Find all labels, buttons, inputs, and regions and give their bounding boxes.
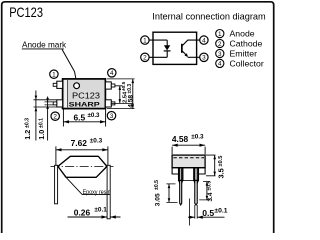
dashed mold line	[173, 157, 204, 159]
left lead shoulder	[179, 168, 183, 181]
legend pin 3 Emitter	[216, 49, 257, 59]
pin 1 circle (schematic)	[141, 36, 149, 45]
dimension 2.54±0.5 (pin pitch, right)	[112, 81, 134, 103]
rear shoulder line between leads	[183, 179, 194, 181]
dimension 0.5±0.1 (lead width)	[188, 205, 228, 219]
svg-text:2: 2	[53, 114, 57, 121]
pin 2 circle (schematic)	[141, 53, 149, 62]
svg-text:PC123: PC123	[72, 91, 100, 100]
svg-text:0.5: 0.5	[202, 208, 214, 218]
svg-text:1: 1	[52, 72, 56, 79]
svg-text:±0.3: ±0.3	[191, 133, 204, 140]
svg-text:4.58: 4.58	[172, 134, 189, 144]
svg-text:1: 1	[143, 37, 147, 44]
pin 3 number circle	[107, 112, 115, 121]
svg-text:1.2: 1.2	[23, 130, 32, 140]
dimension 3.5±0.5 (body height)	[206, 155, 226, 178]
svg-text:Epoxy resin: Epoxy resin	[83, 189, 111, 196]
body lower flange right	[198, 168, 205, 174]
label Epoxy resin	[65, 176, 111, 196]
package body (front view)	[172, 155, 205, 168]
right lead pin	[195, 168, 197, 205]
svg-text:4: 4	[202, 37, 206, 44]
svg-text:6.5: 6.5	[74, 113, 86, 123]
svg-text:1.0: 1.0	[37, 130, 46, 140]
pin 3 narrow part	[111, 102, 115, 105]
svg-text:Cathode: Cathode	[230, 39, 263, 49]
pin 1 number circle	[50, 70, 58, 79]
svg-text:3: 3	[110, 113, 114, 120]
pin 2 narrow part	[53, 102, 57, 105]
right lead (side view)	[107, 165, 110, 219]
pin 1 narrow part	[53, 83, 57, 86]
svg-text:±0.1: ±0.1	[39, 118, 45, 128]
wire anode (pin1 to LED)	[149, 39, 167, 41]
svg-text:±0.3: ±0.3	[127, 84, 133, 94]
svg-text:4: 4	[218, 61, 222, 68]
pin 2 number circle	[51, 112, 59, 121]
svg-text:PC123: PC123	[9, 5, 43, 20]
pin 3 circle (schematic)	[200, 53, 208, 62]
svg-text:±0.1: ±0.1	[94, 206, 107, 213]
svg-text:0.26: 0.26	[74, 207, 91, 217]
svg-text:Anode: Anode	[230, 29, 255, 39]
body lower flange left	[172, 168, 179, 174]
pin 1 (top view) wide part	[57, 81, 63, 88]
centerline (front view)	[188, 199, 190, 226]
phototransistor base bar	[181, 44, 183, 53]
dimension 7.62±0.3 (lead span)	[56, 138, 108, 166]
anode mark circle	[74, 83, 80, 89]
svg-text:2: 2	[143, 55, 147, 62]
pin 2 (top view) wide part	[57, 100, 63, 107]
dimension 1.2±0.3 (pin wide width, left)	[23, 91, 57, 141]
svg-text:7.62: 7.62	[71, 138, 88, 148]
centerline (side view)	[51, 165, 114, 167]
left lead pin	[180, 168, 182, 205]
svg-text:3.4: 3.4	[207, 192, 214, 201]
svg-text:Anode mark: Anode mark	[22, 40, 67, 49]
svg-text:±0.1: ±0.1	[214, 207, 227, 214]
LED branch wire	[166, 40, 168, 57]
svg-text:±0.5: ±0.5	[218, 156, 224, 167]
svg-text:SHARP: SHARP	[69, 101, 100, 108]
body bottom line (front view)	[172, 167, 205, 169]
dimension 4.58±0.3 (body width, right)	[107, 79, 135, 109]
dimension 4.58±0.3 (front body width)	[172, 133, 205, 154]
svg-text:±0.5: ±0.5	[207, 181, 213, 191]
mold step line (left inner)	[64, 80, 67, 108]
svg-text:±0.3: ±0.3	[88, 112, 101, 119]
legend pin 1 Anode	[216, 29, 255, 39]
pin 4 (top view) wide part	[105, 82, 111, 89]
svg-text:3.5: 3.5	[217, 168, 226, 178]
dimension 3.05±0.5 (pin length)	[154, 180, 178, 206]
svg-text:1: 1	[218, 31, 222, 38]
pin 3 (top view) wide part	[105, 100, 111, 107]
dimension 0.26±0.1 (lead thickness)	[68, 206, 121, 218]
svg-text:3: 3	[202, 55, 206, 62]
svg-text:4.58: 4.58	[127, 95, 134, 108]
right lead shoulder	[194, 168, 199, 181]
svg-text:2: 2	[218, 41, 222, 48]
pin 4 number circle	[108, 69, 116, 77]
package body (top view)	[63, 79, 106, 109]
legend pin 4 Collector	[216, 58, 264, 68]
leader to anode mark	[62, 49, 77, 82]
pin 4 circle (schematic)	[200, 36, 208, 45]
wire emitter to pin3	[188, 56, 200, 58]
pin 4 narrow part	[111, 84, 115, 87]
svg-text:±0.5: ±0.5	[154, 180, 160, 190]
svg-text:Emitter: Emitter	[230, 49, 258, 59]
svg-text:3.05: 3.05	[154, 193, 161, 206]
left lead (side view)	[55, 165, 58, 204]
svg-text:Internal connection diagram: Internal connection diagram	[152, 11, 266, 21]
svg-text:±0.3: ±0.3	[25, 118, 31, 128]
LED (diode)	[164, 45, 170, 50]
phototransistor emitter with arrow	[182, 51, 187, 56]
svg-text:±0.3: ±0.3	[90, 138, 103, 145]
package body (side view)	[58, 156, 107, 177]
dimension 3.4±0.5 (shoulder to tip)	[199, 181, 214, 202]
schematic box	[153, 32, 197, 64]
svg-text:4: 4	[110, 70, 114, 77]
dimension 1.0±0.1 (pin narrow width, left)	[37, 97, 53, 141]
phototransistor collector	[182, 40, 199, 45]
svg-text:Collector: Collector	[230, 58, 264, 68]
legend pin 2 Cathode	[216, 39, 263, 49]
svg-text:3: 3	[218, 51, 222, 58]
wire cathode (pin2 to LED)	[149, 56, 167, 58]
dimension 6.5±0.3 (top view width)	[63, 109, 105, 127]
